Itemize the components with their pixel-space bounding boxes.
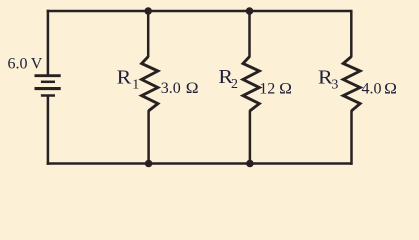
svg-text:4.0Ω: 4.0Ω	[362, 81, 398, 98]
svg-text:3: 3	[331, 78, 338, 93]
svg-text:R: R	[117, 68, 132, 89]
svg-text:6.0 V: 6.0 V	[8, 56, 43, 73]
svg-text:2: 2	[231, 77, 238, 92]
svg-text:3.0Ω: 3.0Ω	[161, 80, 199, 97]
svg-text:1: 1	[132, 77, 139, 92]
